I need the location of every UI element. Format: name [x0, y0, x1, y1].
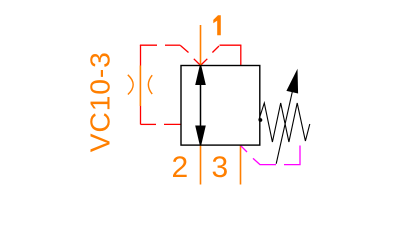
svg-text:3: 3 [212, 151, 229, 184]
svg-text:VC10-3: VC10-3 [83, 52, 115, 152]
svg-text:2: 2 [172, 151, 189, 184]
